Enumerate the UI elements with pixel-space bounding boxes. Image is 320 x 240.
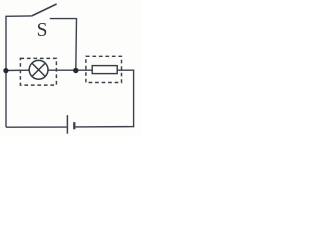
resistor R (rectangle) — [92, 66, 117, 74]
resistor dashed box — [86, 56, 122, 82]
wire: right vertical — [133, 70, 135, 128]
wire: middle rail left segment (left wire to lamp) — [5, 69, 29, 71]
wire: middle rail right segment (resistor to right corner) — [117, 69, 134, 71]
svg-text:S: S — [37, 20, 48, 41]
node: junction dot middle — [73, 68, 78, 73]
lamp L (circle with X) — [29, 60, 48, 79]
battery long plate — [66, 115, 68, 134]
wire: bottom rail right of battery — [75, 126, 134, 128]
wire: left vertical — [5, 16, 7, 127]
lamp dashed box — [20, 58, 56, 85]
wire: upper-right vertical down to junction — [75, 18, 78, 70]
switch S blade — [32, 4, 57, 16]
node: junction dot left — [3, 68, 8, 73]
wire: middle rail center segment (lamp to resistor) — [48, 69, 93, 71]
battery short plate — [73, 122, 75, 129]
wire: switch right contact to top-right corner — [50, 18, 77, 20]
wire: top-left horizontal to switch hinge — [5, 15, 31, 17]
wire: bottom rail left of battery — [6, 126, 67, 128]
